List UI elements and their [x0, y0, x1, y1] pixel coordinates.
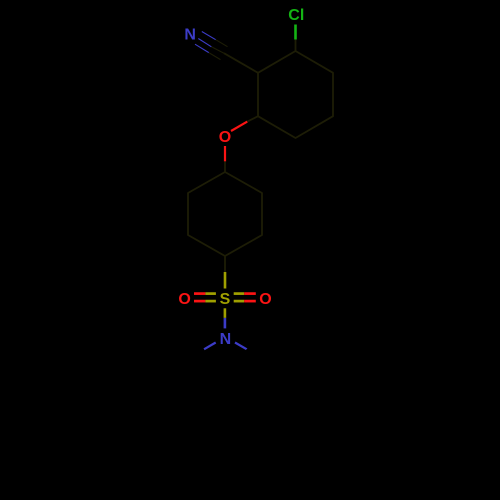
svg-text:S: S: [220, 291, 231, 308]
svg-text:O: O: [219, 129, 231, 146]
bond N-C6 piperidine right (blue stub): [235, 343, 247, 350]
bond Cl-ring1 carbon half (faint): [295, 40, 297, 52]
bond O-ring1 carbon half (faint): [247, 116, 258, 121]
bond S-N (yellow half then blue half): [224, 308, 227, 318]
S=O right double bond: [234, 294, 256, 302]
svg-text:Cl: Cl: [288, 7, 304, 24]
piperidine ring skeleton (near-invisible): [191, 349, 261, 418]
svg-text:O: O: [259, 291, 271, 308]
ring1 chlorobenzene skeleton (faint): [258, 51, 333, 138]
bond O-ring2 carbon half (faint): [224, 161, 226, 172]
bond ring2 bottom to S (yellow stub): [224, 272, 227, 289]
svg-text:N: N: [184, 26, 196, 43]
bond O ether down to ring2 top (red stub): [224, 146, 226, 161]
bond O ether to ring1 LL (red stub): [231, 122, 247, 131]
nitrile triple bond C#N (blue halves near N): [195, 32, 216, 53]
bond C(ring1 UL)-C nitrile (faint carbon bond): [224, 53, 258, 73]
svg-text:O: O: [178, 291, 190, 308]
nitrile triple bond carbon halves (faint): [209, 40, 228, 60]
ring2 benzene skeleton (faint): [188, 172, 262, 256]
S=O left double bond: [194, 294, 216, 302]
bond Cl-ring1 (green stub): [294, 25, 297, 40]
bond ring2-S carbon half (faint): [224, 256, 226, 272]
svg-text:N: N: [220, 331, 232, 348]
bond N-C2 piperidine left (blue stub): [204, 343, 216, 350]
